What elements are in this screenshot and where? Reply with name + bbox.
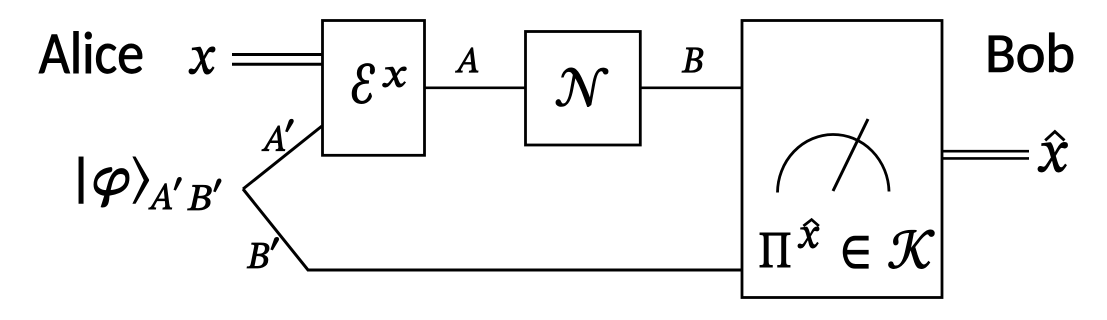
encoder U1 label script E [352,64,374,104]
wire x classical double line [232,55,322,65]
wire B [640,87,742,90]
wire B-prime diagonal and horizontal [243,189,742,270]
measurement U3 gauge arc [778,134,890,192]
channel U2 box N [526,32,641,146]
label Bob [989,33,1073,72]
measurement U3 label superscript hat [803,220,819,226]
encoder U1 label superscript x [383,67,407,87]
state phi subscript B prime [214,179,221,192]
state phi ket angle bracket [133,157,149,203]
node A-prime label [262,126,285,151]
channel U2 label script N [556,68,608,107]
measurement U3 label Pi [760,233,790,267]
node x-hat label hat accent [1045,132,1064,141]
encoder U1 box E^x [323,21,425,156]
node A label [456,48,479,72]
wire A-prime diagonal [243,126,322,189]
state phi ket bar [79,157,83,203]
state phi subscript A [149,184,172,209]
measurement U3 label script K [889,230,935,269]
label Alice [39,32,142,74]
node x-hat label [1038,143,1068,173]
measurement U3 label superscript x [798,227,819,248]
state phi subscript B [188,185,212,210]
node x (classical input label) [189,47,215,74]
state phi subscript A prime [174,177,181,190]
wire x-hat classical double line [942,151,1029,158]
node B-prime label [247,243,269,268]
measurement U3 needle [833,119,868,191]
measurement U3 label element-of [843,236,868,268]
measurement U3 box [742,21,942,298]
state phi symbol [94,168,129,208]
node B label [682,48,703,72]
wire A [425,87,526,90]
